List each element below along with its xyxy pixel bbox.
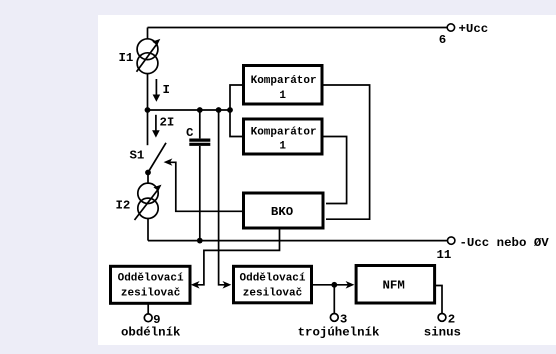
wire I1 to node xyxy=(147,74,149,110)
NFM box xyxy=(356,266,435,304)
current arrow 2I xyxy=(155,115,157,133)
svg-text:NFM: NFM xyxy=(383,279,405,293)
current arrow I xyxy=(155,79,157,97)
switch moving contact xyxy=(145,170,151,176)
switch control arrow from BKO xyxy=(170,162,243,211)
white canvas xyxy=(98,15,556,345)
wire to switch fixed contact xyxy=(147,110,149,145)
svg-text:zesilovač: zesilovač xyxy=(243,287,302,299)
buffer U3 box xyxy=(111,266,191,303)
wire mid rail xyxy=(148,109,231,111)
wire comparator 2 input xyxy=(230,110,242,137)
svg-text:Komparátor: Komparátor xyxy=(251,126,317,138)
switch S1 blade xyxy=(148,143,166,173)
terminal sinus xyxy=(438,314,446,322)
svg-text:C: C xyxy=(186,126,194,140)
BKO box xyxy=(244,193,324,228)
wire triangle tap to buffer 2 xyxy=(219,110,226,285)
wire NFM output to sinus xyxy=(435,286,442,314)
svg-text:BKO: BKO xyxy=(271,205,293,219)
wire square output terminal xyxy=(147,303,149,313)
svg-text:sinus: sinus xyxy=(424,325,461,339)
svg-text:obdélník: obdélník xyxy=(121,325,181,339)
node A junction xyxy=(145,107,151,113)
svg-text:-Ucc nebo ØV: -Ucc nebo ØV xyxy=(460,236,550,250)
wire BKO output to buffer 1 xyxy=(197,230,280,285)
junction cap bottom xyxy=(197,238,203,244)
svg-text:6: 6 xyxy=(439,33,446,47)
wire triangle output terminal xyxy=(333,285,335,314)
svg-text:3: 3 xyxy=(340,313,347,327)
comparator U1 box xyxy=(244,66,323,105)
svg-text:I2: I2 xyxy=(116,199,131,213)
junction triangle out xyxy=(331,282,337,288)
terminal trojuhelnik xyxy=(330,314,338,322)
junction comparator tap xyxy=(227,107,233,113)
svg-text:Oddělovací: Oddělovací xyxy=(240,273,306,285)
terminal +Ucc xyxy=(447,24,454,31)
wire +Ucc top rail xyxy=(148,27,448,29)
wire I2 to bottom rail xyxy=(147,219,149,241)
svg-text:Komparátor: Komparátor xyxy=(251,75,317,87)
wire comparator 1 input xyxy=(230,85,242,110)
current source I1 xyxy=(137,28,158,74)
svg-text:I: I xyxy=(163,83,170,97)
wire buffer 2 to NFM xyxy=(312,284,349,286)
svg-text:I1: I1 xyxy=(119,51,134,65)
svg-text:S1: S1 xyxy=(130,149,145,163)
svg-text:trojúhelník: trojúhelník xyxy=(298,325,380,339)
terminal -Ucc xyxy=(448,237,455,244)
svg-text:2I: 2I xyxy=(160,116,175,130)
terminal obdelnik xyxy=(144,314,152,322)
svg-text:1: 1 xyxy=(279,140,286,152)
comparator U2 box xyxy=(244,119,323,154)
buffer U4 box xyxy=(234,266,312,303)
svg-text:zesilovač: zesilovač xyxy=(121,287,180,299)
svg-text:Oddělovací: Oddělovací xyxy=(118,273,184,285)
junction cap top xyxy=(197,107,203,113)
capacitor C xyxy=(189,110,210,241)
current source I2 xyxy=(135,173,159,221)
wire -Ucc bottom rail xyxy=(148,240,447,242)
wire comparator 2 output to BKO xyxy=(324,137,347,204)
junction triangle tap xyxy=(216,107,222,113)
svg-text:11: 11 xyxy=(437,248,452,262)
svg-text:+Ucc: +Ucc xyxy=(459,22,489,36)
svg-text:1: 1 xyxy=(279,90,286,102)
wire comparator 1 output to BKO xyxy=(324,85,370,219)
svg-text:2: 2 xyxy=(448,313,455,327)
